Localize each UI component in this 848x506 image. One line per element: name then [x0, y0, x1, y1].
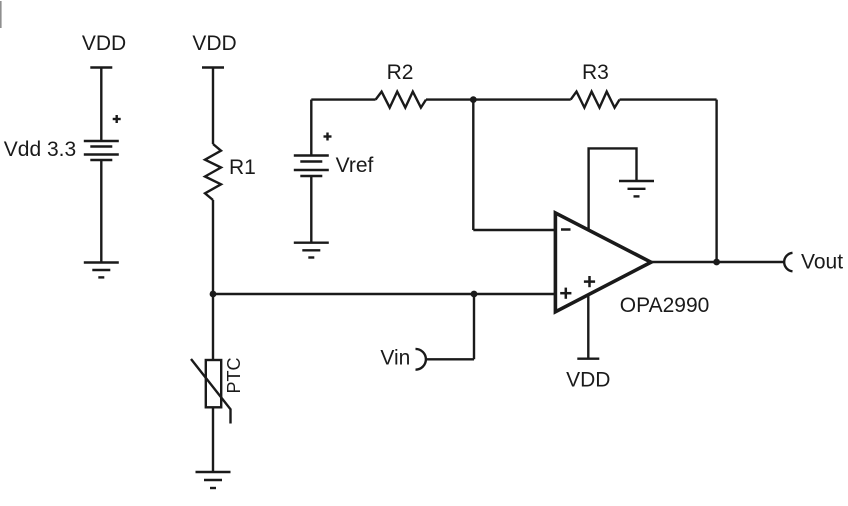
wire (V+ pin): [587, 295, 589, 359]
resistor R2: [376, 61, 426, 108]
wire: [212, 407, 214, 472]
svg-text:VDD: VDD: [192, 32, 236, 55]
wire: [311, 98, 375, 100]
node junction (Vin tap): [471, 291, 478, 298]
ground: [196, 472, 231, 488]
resistor R1: [205, 144, 256, 200]
wire (V- pin to ground): [589, 148, 637, 230]
ground: [84, 263, 119, 278]
wire (output): [651, 261, 783, 263]
svg-text:PTC: PTC: [224, 357, 244, 393]
wire: [212, 200, 214, 294]
op-amp U1 OPA2990: [555, 213, 709, 317]
wire: [310, 176, 312, 243]
wire: [426, 358, 475, 360]
svg-text:VDD: VDD: [82, 32, 126, 55]
svg-text:R1: R1: [229, 156, 256, 179]
wire: [100, 68, 102, 142]
wire: [310, 100, 312, 156]
battery V1 Vdd 3.3: [4, 115, 121, 161]
port Vout: [784, 251, 843, 274]
wire: [100, 160, 102, 263]
thermistor PTC: [191, 357, 244, 423]
wire: [212, 294, 214, 360]
wire: [213, 293, 555, 295]
node junction (R2 / R3 / inverting input): [470, 96, 477, 103]
svg-text:Vin: Vin: [380, 347, 410, 370]
ground: [619, 181, 654, 196]
wire: [473, 229, 555, 231]
power flag VDD (op-amp supply): [566, 359, 610, 392]
node junction (output / R3 feedback): [713, 259, 720, 266]
node junction (R1 / PTC / op-amp + input): [210, 291, 217, 298]
power flag VDD (left battery column): [82, 32, 126, 68]
wire: [473, 294, 475, 359]
resistor R3: [571, 61, 620, 108]
ground: [294, 243, 329, 258]
wire: [620, 98, 717, 100]
svg-text:Vdd 3.3: Vdd 3.3: [4, 138, 76, 161]
wire: [473, 98, 570, 100]
svg-text:R2: R2: [387, 61, 414, 84]
svg-text:Vref: Vref: [336, 154, 374, 177]
port Vin: [380, 347, 426, 370]
battery V2 Vref: [294, 133, 374, 178]
svg-text:OPA2990: OPA2990: [620, 294, 710, 317]
power flag VDD (R1 column): [192, 32, 236, 68]
wire: [715, 100, 717, 262]
wire: [426, 98, 473, 100]
svg-text:Vout: Vout: [801, 251, 843, 274]
wire: [212, 68, 214, 145]
svg-text:VDD: VDD: [566, 368, 610, 391]
svg-text:R3: R3: [582, 61, 609, 84]
wire: [472, 100, 474, 230]
